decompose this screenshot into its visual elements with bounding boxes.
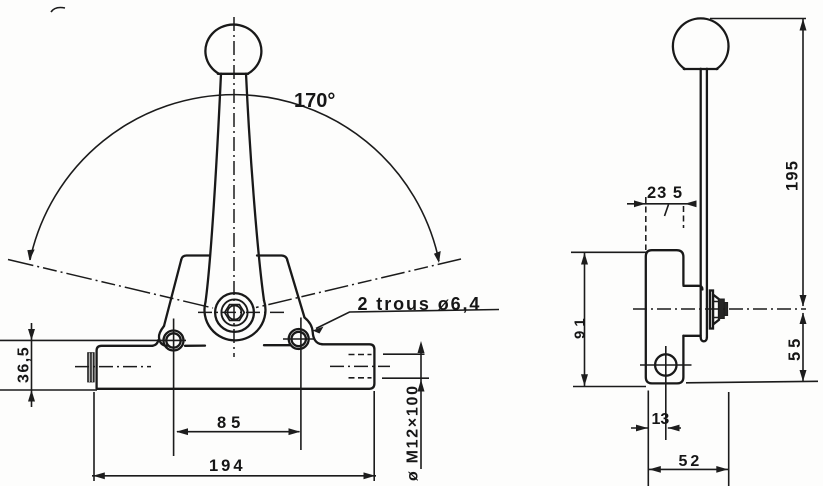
svg-text:194: 194: [209, 457, 246, 475]
hub disc 3 (nut, dark): [719, 299, 724, 319]
swing arc 170 deg: [30, 95, 439, 261]
lever plate bottom end: [701, 338, 707, 342]
svg-text:13: 13: [652, 411, 670, 428]
lever plate left edge: [700, 69, 702, 338]
plate top segment between hub boss and right ear: [264, 344, 290, 346]
side body outline: [646, 250, 684, 383]
M12 label leader line: [420, 348, 422, 469]
base plate outline: [97, 344, 375, 389]
dim 52 right extension: [728, 392, 730, 486]
dim 55 line: [802, 313, 804, 382]
left mounting hole: [164, 331, 184, 351]
side hole: [655, 354, 676, 375]
ball top tangent line: [710, 18, 806, 20]
dim 36.5 line: [31, 323, 33, 407]
svg-text:170°: 170°: [294, 90, 335, 112]
svg-text:195: 195: [784, 160, 802, 191]
hub flange circle: [215, 293, 254, 332]
right ear around hole: [305, 318, 323, 345]
hole center line vertical (left hole): [173, 319, 175, 457]
dim 36.5 lower extension: [0, 389, 97, 391]
dim 194 extensions: [94, 391, 374, 481]
hub center line: [633, 308, 806, 310]
hidden thread line lower: [349, 377, 372, 379]
lever shaft left edge: [206, 74, 222, 302]
ball knob side: [673, 18, 729, 69]
lever plate right edge: [706, 69, 708, 338]
svg-text:85: 85: [217, 414, 245, 432]
plate boss rise left of ear: [153, 340, 159, 346]
stray scan mark top-left: [51, 8, 65, 13]
side hole center line horizontal: [640, 364, 692, 366]
bottom extension left (91): [573, 386, 646, 388]
ball-shaft junction chord: [218, 73, 248, 75]
svg-text:55: 55: [786, 335, 804, 361]
dim 195 line: [802, 19, 804, 307]
stud center line: [75, 366, 151, 368]
arc arrow left: [26, 249, 35, 261]
M12 stud end (hatched): [88, 353, 94, 382]
housing right slant side: [287, 261, 304, 318]
body upper step: [683, 286, 702, 290]
hub nut hexagon: [225, 305, 245, 321]
housing left slant side: [164, 260, 181, 327]
housing top edge: [181, 256, 287, 261]
lever shaft right edge: [246, 74, 264, 301]
hole center line horizontal (right hole): [283, 338, 315, 340]
lever extreme position line (left, dash-dot): [8, 260, 213, 309]
svg-text:52: 52: [679, 453, 703, 470]
dim 85 line: [177, 431, 300, 433]
hub disc 1: [710, 291, 713, 329]
svg-text:23 5: 23 5: [647, 184, 683, 202]
lever boss arc under hub: [204, 301, 265, 341]
top extension (91): [571, 251, 648, 253]
ball knob front: [205, 25, 261, 74]
left ear around hole: [159, 326, 167, 346]
hub horizontal center line: [198, 311, 286, 313]
dim 13/52 left extension: [647, 391, 649, 486]
svg-text:2 trous ø6,4: 2 trous ø6,4: [358, 294, 482, 314]
hole center line vertical (right hole): [300, 318, 302, 451]
dim 36.5 upper extension / left hole center line: [0, 339, 186, 341]
hidden thread line upper (plate right end): [349, 354, 372, 356]
hub washer circle: [221, 299, 247, 325]
hub shaft circle: [228, 306, 242, 320]
dim 194 line: [92, 475, 376, 477]
bottom extension right: [686, 381, 818, 383]
hub disc 2: [713, 295, 719, 325]
lever extreme position line (right, dash-dot): [256, 259, 461, 308]
right mounting hole: [289, 329, 309, 349]
dim 91 line: [584, 252, 586, 386]
svg-text:36,5: 36,5: [16, 346, 33, 383]
arc arrow right: [434, 251, 443, 264]
leader 2 trous: [316, 310, 499, 329]
thread center line: [330, 365, 390, 367]
body lower step: [683, 335, 700, 337]
hub tip: [724, 303, 727, 316]
plate top segment between left ear and hub boss: [185, 344, 205, 346]
svg-text:91: 91: [572, 314, 589, 339]
side hole center line vertical: [665, 346, 667, 440]
svg-text:ø M12×100: ø M12×100: [405, 384, 422, 481]
lever center line (vertical): [233, 17, 235, 357]
